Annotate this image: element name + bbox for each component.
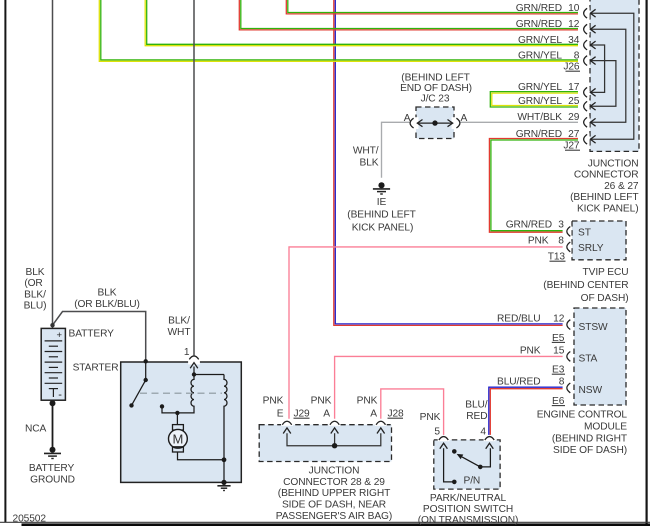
svg-text:(ON TRANSMISSION): (ON TRANSMISSION) <box>418 515 519 526</box>
ECM pin 12 STSW <box>497 314 608 333</box>
svg-text:SRLY: SRLY <box>578 243 604 254</box>
svg-text:25: 25 <box>568 96 580 107</box>
svg-text:MODULE: MODULE <box>584 421 627 432</box>
connector label J28 <box>388 409 405 420</box>
battery ground <box>44 447 61 459</box>
svg-text:15: 15 <box>553 345 565 356</box>
svg-text:8: 8 <box>574 50 580 61</box>
svg-text:27: 27 <box>568 129 580 140</box>
TVIP pin 8 SRLY <box>528 236 604 254</box>
connector pin A (J29) <box>329 420 341 434</box>
svg-text:PNK: PNK <box>357 395 378 406</box>
svg-text:A: A <box>461 113 468 124</box>
wire PNK from ECM STA pin 15 to J29 pin A <box>335 356 567 418</box>
svg-text:J/C 23: J/C 23 <box>421 94 450 105</box>
connector pin 10 (GRN/RED) J26/J27 <box>516 3 596 19</box>
connector pin E (J29) <box>281 420 293 434</box>
connector pin A (J28) <box>375 420 387 434</box>
connector J/C 23 (behind left end of dash) <box>410 107 460 139</box>
wire RED/BLU from top to STSW pin 12 <box>334 0 567 325</box>
label ENGINE CONTROL MODULE (BEHIND RIGHT SIDE OF DASH) <box>537 409 628 456</box>
label BLK (OR BLK/BLU) branch to starter <box>74 288 140 310</box>
TVIP pin 3 ST <box>506 220 591 239</box>
svg-text:RED/BLU: RED/BLU <box>497 314 540 325</box>
wire GRN/RED pin 27 to TVIP ST pin 3 <box>489 139 583 233</box>
svg-text:-: - <box>58 389 62 401</box>
svg-text:M: M <box>173 431 184 446</box>
solenoid hold-in coil (right) <box>224 375 227 460</box>
mechanical link (dashed) <box>140 392 222 394</box>
svg-text:(OR: (OR <box>24 278 42 289</box>
svg-text:GRN/RED: GRN/RED <box>506 220 552 231</box>
svg-text:(BEHIND CENTER: (BEHIND CENTER <box>543 280 628 291</box>
svg-text:PNK: PNK <box>311 395 332 406</box>
connector label T13 <box>548 252 566 263</box>
label BATTERY <box>69 329 115 340</box>
svg-text:BLK: BLK <box>98 288 117 299</box>
svg-text:KICK PANEL): KICK PANEL) <box>352 223 414 234</box>
label WHT/BLK <box>353 145 379 168</box>
wire PNK from TVIP SRLY pin 8 to J29 pin E <box>289 247 567 419</box>
svg-text:NCA: NCA <box>25 424 47 435</box>
wire internal bus of J28/J29 <box>287 433 381 448</box>
label BLK (OR BLK/BLU) vertical feed <box>24 267 47 312</box>
starter ground <box>217 480 230 491</box>
svg-text:12: 12 <box>568 19 580 30</box>
label A (left pin of J/C 23) <box>404 113 411 124</box>
svg-text:10: 10 <box>568 3 580 14</box>
label NCA <box>25 424 47 435</box>
motor M <box>169 425 188 452</box>
svg-text:GRN/RED: GRN/RED <box>516 19 562 30</box>
connector pin 8 (GRN/YEL) J26/J27 <box>518 50 596 66</box>
svg-text:SIDE OF DASH, NEAR: SIDE OF DASH, NEAR <box>282 500 386 511</box>
wire jumper pin12 to pin29 (inside J26/J27) <box>590 29 626 122</box>
label TVIP ECU (BEHIND CENTER OF DASH) <box>543 267 628 304</box>
svg-text:PNK: PNK <box>420 412 441 423</box>
label BATTERY GROUND <box>29 463 75 485</box>
svg-text:PASSENGER'S AIR BAG): PASSENGER'S AIR BAG) <box>276 511 392 522</box>
label PNK (pin E) <box>263 395 284 406</box>
connector pin 17 (GRN/YEL) J26/J27 <box>518 82 596 98</box>
wire PNK from J28 pin A to park/neutral switch pin 5 <box>381 389 444 436</box>
svg-text:PNK: PNK <box>528 236 549 247</box>
solenoid switch contacts <box>129 359 179 415</box>
wire node to starter ground <box>223 460 225 483</box>
svg-text:BLK/: BLK/ <box>168 316 190 327</box>
svg-text:RED: RED <box>466 411 487 422</box>
svg-text:205502: 205502 <box>13 514 47 525</box>
wire jumper pin10 to pin27 (inside J26/J27) <box>590 13 634 139</box>
TVIP ECU box (behind center of dash) <box>572 221 626 260</box>
wire jumper pin34 to pin17 (inside J26/J27) <box>590 45 604 92</box>
svg-text:PNK: PNK <box>263 395 284 406</box>
svg-text:GRN/RED: GRN/RED <box>516 129 562 140</box>
svg-text:STARTER: STARTER <box>73 363 119 374</box>
wire BLU/RED from ECM NSW pin 8 to park/neutral switch pin 4 <box>489 387 567 436</box>
svg-text:STSW: STSW <box>579 322 609 333</box>
connector pin 5 (P/N switch) <box>438 435 450 449</box>
svg-text:(BEHIND RIGHT: (BEHIND RIGHT <box>552 433 627 444</box>
svg-text:34: 34 <box>568 35 580 46</box>
svg-text:BLK: BLK <box>360 157 379 168</box>
svg-text:(OR BLK/BLU): (OR BLK/BLU) <box>74 299 140 310</box>
svg-text:A: A <box>370 409 377 420</box>
pin letter E <box>277 409 284 420</box>
wire node to right coil top <box>194 374 224 376</box>
label PARK/NEUTRAL POSITION SWITCH (ON TRANSMISSION) <box>418 493 519 526</box>
label BLK/WHT <box>168 316 191 338</box>
svg-text:1: 1 <box>184 347 190 358</box>
label JUNCTION CONNECTOR 26 & 27 (BEHIND LEFT KICK PANEL) <box>570 159 639 215</box>
label P/N <box>464 476 481 487</box>
connector pin 4 (P/N switch) <box>484 435 496 449</box>
svg-text:29: 29 <box>568 112 580 123</box>
connector label E3 <box>552 365 565 376</box>
svg-text:(BEHIND LEFT: (BEHIND LEFT <box>347 210 415 221</box>
solenoid pull-in coil (left) <box>162 375 194 413</box>
svg-text:BLU/: BLU/ <box>465 400 488 411</box>
label PNK (pin 5) <box>420 412 441 423</box>
svg-text:A: A <box>323 409 330 420</box>
svg-text:GROUND: GROUND <box>30 474 75 485</box>
label JUNCTION CONNECTOR 28 & 29 (BEHIND UPPER RIGHT SIDE OF DASH, NEAR PASSENGER'S AIR BAG) <box>276 465 392 522</box>
svg-text:NSW: NSW <box>579 385 603 396</box>
svg-text:BATTERY: BATTERY <box>69 329 115 340</box>
connector pin 12 (GRN/RED) J26/J27 <box>516 19 596 35</box>
connector label E6 <box>552 396 565 407</box>
svg-text:BLU/RED: BLU/RED <box>497 376 540 387</box>
connector label E5 <box>552 333 565 344</box>
wire movable contact to pin 4 <box>480 448 490 467</box>
starter box <box>121 362 242 482</box>
svg-text:BLU): BLU) <box>24 301 47 312</box>
svg-text:12: 12 <box>553 314 565 325</box>
label STARTER <box>73 363 119 374</box>
connector label J26 <box>563 61 580 72</box>
svg-text:JUNCTION: JUNCTION <box>309 465 360 476</box>
svg-text:GRN/YEL: GRN/YEL <box>518 96 562 107</box>
svg-text:SIDE OF DASH): SIDE OF DASH) <box>553 445 627 456</box>
svg-text:ST: ST <box>578 227 591 238</box>
contact P/N <box>452 480 457 485</box>
ground IE (behind left kick panel) <box>373 182 390 194</box>
svg-text:(BEHIND LEFT: (BEHIND LEFT <box>570 192 638 203</box>
svg-text:CONNECTOR 28 & 29: CONNECTOR 28 & 29 <box>283 477 385 488</box>
battery <box>41 328 65 401</box>
connector pin 25 (GRN/YEL) J26/J27 <box>518 96 596 112</box>
svg-text:8: 8 <box>559 376 565 387</box>
wire jumper pin8 to pin25 (inside J26/J27) <box>590 61 616 107</box>
svg-text:8: 8 <box>558 236 564 247</box>
svg-text:STA: STA <box>579 354 598 365</box>
connector pin 27 (GRN/RED) J26/J27 <box>516 129 596 145</box>
label PNK (pin A J29) <box>311 395 332 406</box>
svg-text:WHT: WHT <box>168 327 191 338</box>
svg-text:BLK: BLK <box>26 267 45 278</box>
connector pin 29 (WHT/BLK) J26/J27 <box>517 112 595 128</box>
label PNK (pin A J28) <box>357 395 378 406</box>
pin number 1 <box>184 347 190 358</box>
label IE (BEHIND LEFT KICK PANEL) <box>347 197 415 234</box>
wire GRN/RED to pin 12 <box>239 0 583 30</box>
svg-text:WHT/BLK: WHT/BLK <box>517 112 562 123</box>
wire BLK (OR BLK/BLU) battery feed from top <box>50 0 145 361</box>
wire GRN/YEL to pin 34 <box>145 0 583 46</box>
svg-text:POSITION SWITCH: POSITION SWITCH <box>423 504 513 515</box>
wire pin 1 to solenoid node <box>192 367 196 377</box>
svg-text:BATTERY: BATTERY <box>29 463 75 474</box>
wire contact to motor branch <box>176 413 178 425</box>
diagram number 205502 <box>13 514 47 525</box>
wire motor to ground node <box>178 452 227 462</box>
ECM pin 8 NSW <box>497 376 602 396</box>
wire WHT/BLK from J/C 23 to ground IE <box>382 122 410 178</box>
wire GRN/RED to pin 10 <box>286 0 583 14</box>
svg-text:CONNECTOR: CONNECTOR <box>574 170 639 181</box>
svg-text:PNK: PNK <box>520 345 541 356</box>
svg-text:26 & 27: 26 & 27 <box>604 181 639 192</box>
connector label J27 <box>563 140 580 151</box>
fixed contact (upper) <box>452 449 457 454</box>
switch arm with arrow <box>457 454 483 469</box>
svg-text:TVIP ECU: TVIP ECU <box>583 267 629 278</box>
label (BEHIND LEFT END OF DASH) J/C 23 <box>400 73 472 105</box>
svg-text:GRN/YEL: GRN/YEL <box>518 50 562 61</box>
wire GRN/YEL to pin 8 <box>99 0 583 61</box>
park/neutral position switch box (on transmission) <box>434 440 500 489</box>
wire GRN/YEL loop pin 17 to pin 25 <box>490 92 583 107</box>
pin letter A (J28) <box>370 409 377 420</box>
svg-text:JUNCTION: JUNCTION <box>588 159 639 170</box>
svg-text:END OF DASH): END OF DASH) <box>400 83 472 94</box>
svg-text:(BEHIND UPPER RIGHT: (BEHIND UPPER RIGHT <box>278 488 390 499</box>
engine control module box (behind right side of dash) <box>574 308 626 405</box>
ECM pin 15 STA <box>520 345 598 364</box>
pin number 5 <box>434 427 440 438</box>
wire BLK battery to ground <box>50 400 56 447</box>
junction connector J26 & J27 (box, behind left kick panel) <box>590 0 639 151</box>
svg-text:3: 3 <box>558 220 564 231</box>
svg-text:17: 17 <box>568 82 580 93</box>
wire BLK/WHT to starter pin 1 <box>193 0 195 355</box>
connector pin 1 (starter) <box>188 356 200 368</box>
svg-text:E: E <box>277 409 284 420</box>
svg-text:KICK PANEL): KICK PANEL) <box>577 203 639 214</box>
svg-text:4: 4 <box>480 427 486 438</box>
svg-text:GRN/YEL: GRN/YEL <box>518 35 562 46</box>
svg-text:+: + <box>56 330 62 341</box>
connector label J29 <box>294 409 311 420</box>
svg-text:OF DASH): OF DASH) <box>581 293 629 304</box>
pin number 4 <box>480 427 486 438</box>
svg-text:IE: IE <box>377 197 387 208</box>
svg-text:BLK/: BLK/ <box>24 289 46 300</box>
wire pin 5 to P/N contact <box>444 448 453 482</box>
label A (right pin of J/C 23) <box>461 113 468 124</box>
svg-text:GRN/RED: GRN/RED <box>516 3 562 14</box>
svg-text:P/N: P/N <box>464 476 481 487</box>
label BLU/RED (pin 4) <box>465 400 488 423</box>
svg-text:WHT/: WHT/ <box>353 145 379 156</box>
svg-text:ENGINE CONTROL: ENGINE CONTROL <box>537 409 628 420</box>
svg-text:GRN/YEL: GRN/YEL <box>518 82 562 93</box>
junction connector J28 & J29 box (behind upper right side of dash) <box>259 425 391 462</box>
svg-text:5: 5 <box>434 427 440 438</box>
wire WHT/BLK from J/C 23 to pin 29 <box>460 121 583 123</box>
svg-text:PARK/NEUTRAL: PARK/NEUTRAL <box>430 493 507 504</box>
svg-text:(BEHIND LEFT: (BEHIND LEFT <box>401 73 469 84</box>
pin letter A (J29) <box>323 409 330 420</box>
svg-text:A: A <box>404 113 411 124</box>
connector pin 34 (GRN/YEL) J26/J27 <box>518 35 596 51</box>
